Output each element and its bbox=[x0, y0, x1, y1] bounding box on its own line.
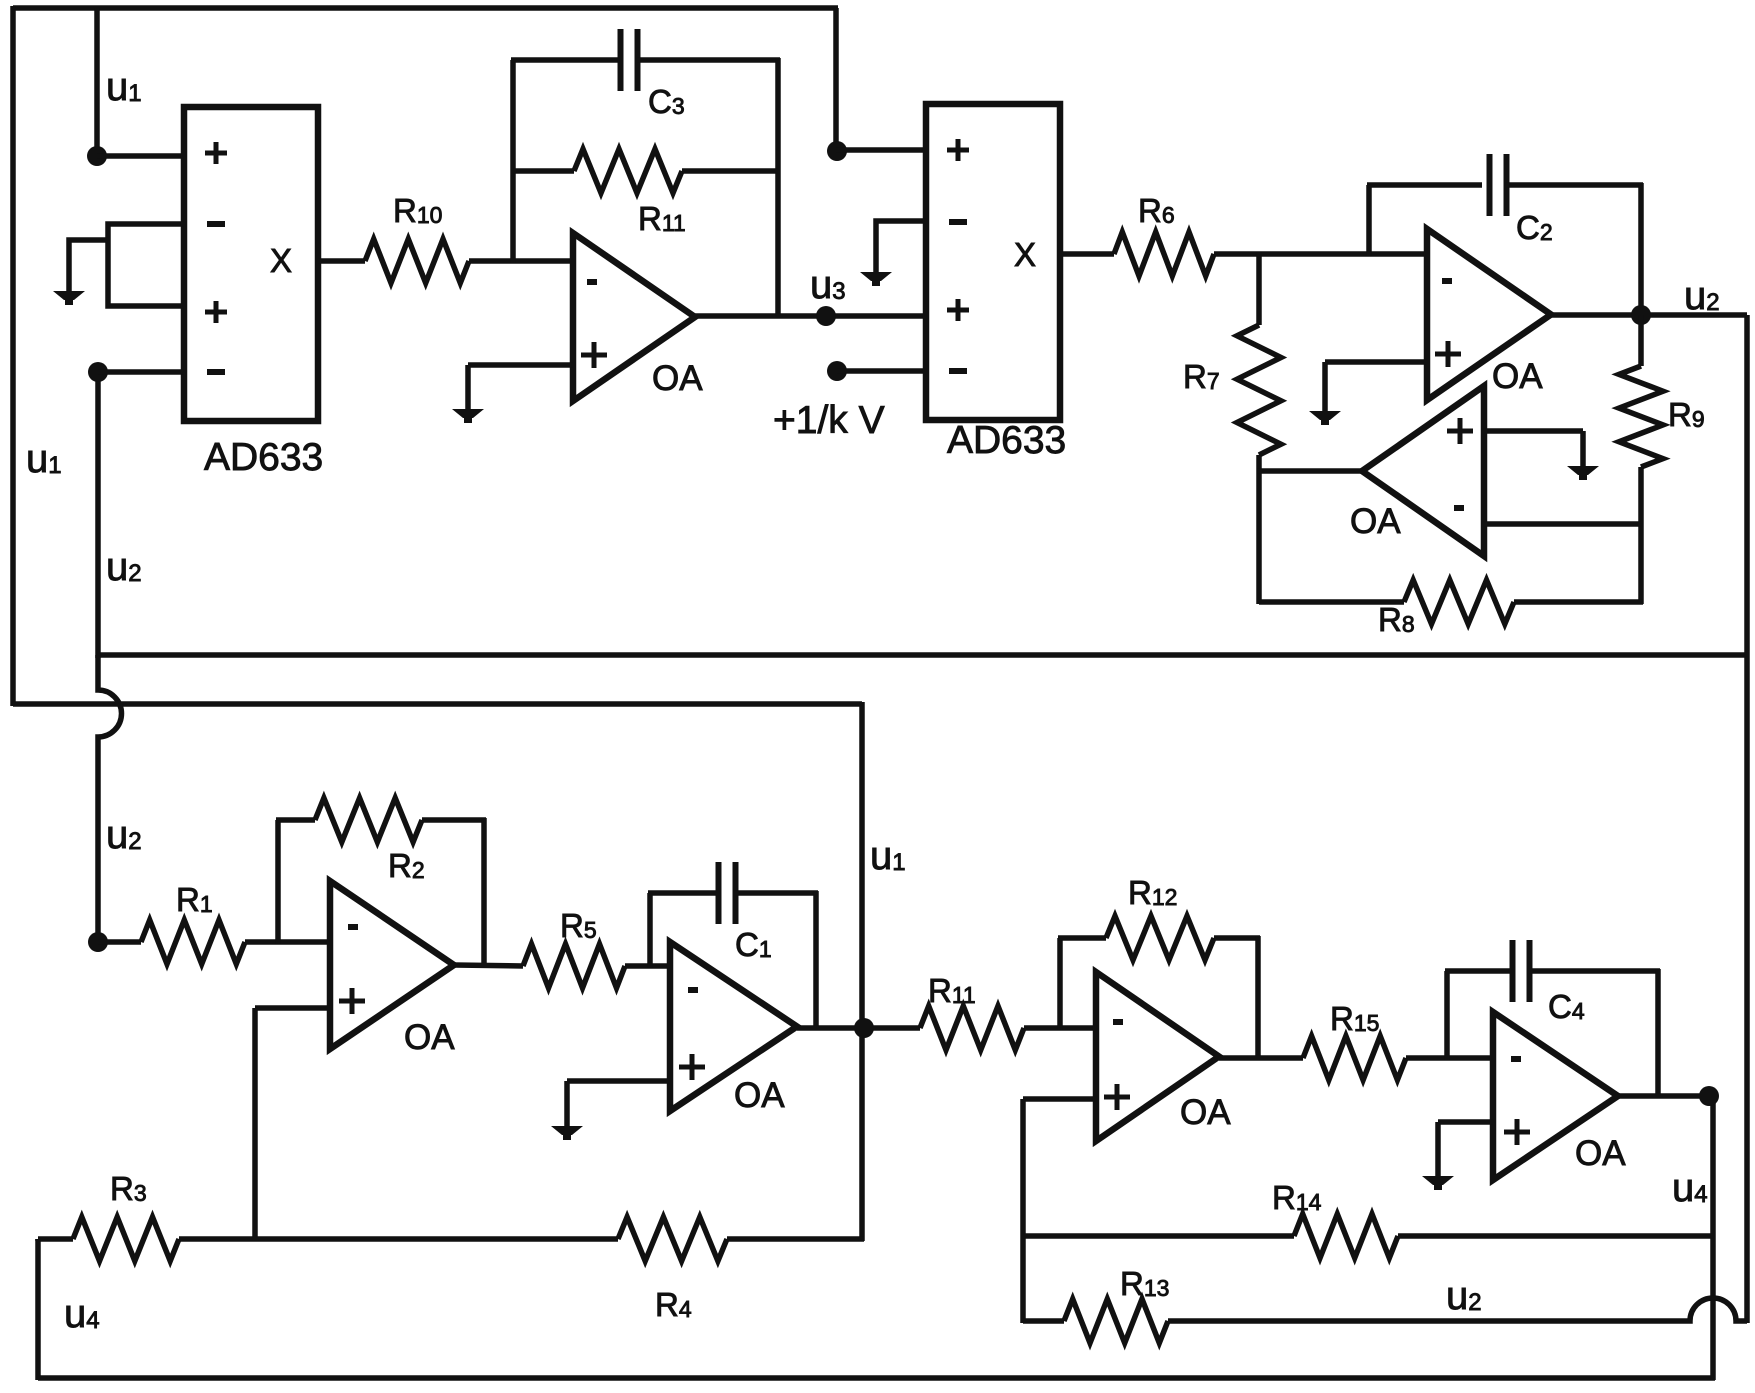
wire C2 top right bbox=[1506, 182, 1643, 188]
wire C3 top left bbox=[511, 57, 621, 63]
wire u2 vertical hop over u1 line bbox=[98, 655, 122, 944]
wire R2 right bbox=[422, 817, 486, 823]
wire C3 top right bbox=[637, 57, 780, 63]
wire OA5 output bbox=[797, 1025, 920, 1031]
wire AD633 #2 pin1 bbox=[836, 147, 926, 153]
label C1 bbox=[735, 926, 772, 963]
resistor R10 bbox=[365, 239, 469, 283]
wire OA5 ground stem bbox=[564, 1081, 570, 1127]
ground OA1 bbox=[452, 409, 484, 423]
wire OA5 plus input bbox=[567, 1078, 670, 1084]
wire C1 right leg bbox=[813, 891, 819, 1030]
wire OA7 output bbox=[1618, 1093, 1713, 1099]
OA5 plus bbox=[679, 1054, 705, 1080]
wire C1 top left bbox=[648, 890, 719, 896]
AD633 #1 pin3 + bbox=[205, 301, 227, 323]
op-amp OA4 bbox=[330, 881, 454, 1049]
wire R2 left leg bbox=[275, 820, 281, 944]
label OA1 bbox=[652, 359, 703, 398]
svg-text:X: X bbox=[270, 242, 292, 279]
label u3 bbox=[810, 263, 846, 307]
OA4 minus bbox=[348, 924, 358, 930]
multiplier AD633 #1 box bbox=[184, 107, 318, 421]
wire C2 right leg bbox=[1638, 183, 1644, 317]
resistor R9 bbox=[1619, 366, 1663, 467]
wire bottom border u4 bbox=[38, 1375, 1715, 1381]
wire R12 left bbox=[1058, 935, 1106, 941]
label OA5 bbox=[734, 1076, 785, 1115]
node u3 bbox=[816, 306, 836, 326]
wire R11 left bbox=[513, 168, 574, 174]
wire u2 vertical upper bbox=[95, 370, 101, 658]
svg-text:OA: OA bbox=[1350, 502, 1401, 541]
wire OA6 plus leg down bbox=[1020, 1099, 1026, 1323]
wire R11b to OA bbox=[1024, 1025, 1096, 1031]
svg-text:OA: OA bbox=[652, 359, 703, 398]
OA3 minus bbox=[1454, 505, 1464, 511]
label R9 bbox=[1668, 396, 1705, 433]
wire OA2 ground stem bbox=[1322, 362, 1328, 412]
svg-text:AD633: AD633 bbox=[947, 419, 1066, 462]
resistor R1 bbox=[141, 920, 245, 964]
wire R9 lower stem bbox=[1638, 467, 1644, 604]
resistor R2 bbox=[315, 798, 422, 842]
wire u1 vertical mid bbox=[859, 702, 865, 1241]
node u4 bbox=[1699, 1086, 1719, 1106]
node u2 to R1 bbox=[88, 932, 108, 952]
wire R13 right with hop bbox=[1168, 1298, 1747, 1321]
wire OA7 ground stem bbox=[1435, 1122, 1441, 1177]
wire R7 upper stem bbox=[1256, 252, 1262, 325]
wire R14 left bbox=[1023, 1233, 1294, 1239]
node u2 top right bbox=[1631, 305, 1651, 325]
label R6 bbox=[1138, 192, 1175, 229]
resistor R15 bbox=[1303, 1036, 1406, 1080]
op-amp OA1 bbox=[573, 233, 695, 401]
resistor R6 bbox=[1114, 232, 1214, 276]
label u2 left bbox=[106, 545, 142, 589]
AD633 #1 pin4 - bbox=[207, 369, 225, 375]
wire X2 output bbox=[1060, 251, 1114, 257]
op-amp OA3 mirrored bbox=[1362, 386, 1484, 556]
wire OA2 output bbox=[1551, 312, 1747, 318]
AD633 #2 pin1 + bbox=[947, 139, 969, 161]
wire R12 right bbox=[1214, 935, 1260, 941]
wire C4 right leg bbox=[1655, 969, 1661, 1098]
label OA7 bbox=[1575, 1134, 1626, 1173]
wire R10 to OA1 bbox=[469, 258, 573, 264]
resistor R7 bbox=[1237, 325, 1281, 455]
label C4 bbox=[1548, 988, 1585, 1025]
wire bottom left vertical u4 bbox=[35, 1239, 41, 1380]
label R1 bbox=[176, 881, 213, 918]
label R4 bbox=[655, 1286, 692, 1323]
wire R1 left bbox=[98, 939, 141, 945]
label u2 mid bbox=[106, 813, 142, 857]
wire R1 to OA bbox=[245, 939, 330, 945]
label u2 bottom bbox=[1446, 1274, 1482, 1318]
wire R14 right bbox=[1398, 1233, 1713, 1239]
wire R2 left bbox=[276, 817, 315, 823]
OA7 minus bbox=[1511, 1056, 1521, 1062]
OA5 minus bbox=[688, 987, 698, 993]
op-amp OA2 bbox=[1427, 229, 1551, 400]
AD633 #1 pin2 - bbox=[207, 221, 225, 227]
label u1 bottom bbox=[870, 834, 906, 878]
wire OA3 plus input bbox=[1484, 428, 1583, 434]
label u1 left border bbox=[26, 437, 62, 481]
wire OA1 plus input bbox=[468, 362, 573, 368]
svg-text:AD633: AD633 bbox=[204, 436, 323, 479]
wire OA4 output bbox=[454, 965, 523, 966]
label R2 bbox=[388, 847, 425, 884]
wire OA1 ground stem bbox=[465, 365, 471, 410]
ground #2 bbox=[860, 272, 892, 286]
wire R3 left vert bbox=[35, 1239, 41, 1241]
wire OA3 minus input bbox=[1484, 521, 1641, 527]
wire OA3 ground stem bbox=[1580, 431, 1586, 467]
node u1 junction bbox=[87, 146, 184, 166]
resistor R5 bbox=[523, 944, 625, 988]
wire right border u2 bbox=[1744, 315, 1750, 1323]
AD633 #2 pin3 + bbox=[947, 299, 969, 321]
op-amp OA6 bbox=[1096, 972, 1219, 1141]
wire R7 lower stem bbox=[1256, 455, 1262, 604]
label OA2 bbox=[1492, 357, 1543, 396]
wire ground stem #2 bbox=[876, 221, 926, 273]
node u1 junction right bbox=[827, 141, 847, 161]
resistor R3 bbox=[73, 1217, 179, 1261]
wire R2 right leg bbox=[481, 818, 487, 967]
capacitor C3 bbox=[621, 29, 638, 91]
OA3 plus bbox=[1447, 418, 1473, 444]
OA4 plus bbox=[339, 988, 365, 1014]
label R11 bbox=[638, 200, 686, 237]
wire C1 top right bbox=[735, 890, 818, 896]
resistor R8 bbox=[1404, 580, 1514, 624]
wire feedback left leg C3 bbox=[510, 60, 516, 263]
svg-text:OA: OA bbox=[734, 1076, 785, 1115]
svg-text:OA: OA bbox=[1575, 1134, 1626, 1173]
wire R3 left bbox=[38, 1236, 73, 1242]
op-amp OA5 bbox=[670, 942, 797, 1111]
label u2 top right bbox=[1684, 274, 1720, 318]
wire C4 left leg bbox=[1444, 971, 1450, 1060]
resistor R14 bbox=[1294, 1214, 1398, 1258]
wire R8 left bbox=[1259, 599, 1404, 605]
wire OA7 plus input bbox=[1438, 1119, 1493, 1125]
resistor R13 bbox=[1064, 1299, 1168, 1343]
wire C4 top left bbox=[1445, 968, 1513, 974]
OA1 plus bbox=[581, 342, 607, 368]
AD633 #2 X output label bbox=[1014, 236, 1036, 273]
wire u1 horizontal line bbox=[13, 701, 862, 707]
svg-text:OA: OA bbox=[1492, 357, 1543, 396]
svg-text:OA: OA bbox=[1180, 1093, 1231, 1132]
node +1/k V bbox=[827, 361, 926, 381]
wire R6 to OA bbox=[1214, 251, 1427, 257]
label R13 bbox=[1120, 1265, 1169, 1302]
wire R12 right leg bbox=[1255, 936, 1261, 1058]
label OA6 bbox=[1180, 1093, 1231, 1132]
wire OA6 output bbox=[1219, 1055, 1303, 1061]
node u1 junction bottom bbox=[854, 1018, 874, 1038]
wire C2 left leg bbox=[1366, 185, 1372, 256]
wire C2 top left bbox=[1367, 182, 1482, 188]
wire top border u1 bbox=[13, 5, 838, 11]
capacitor C2 bbox=[1490, 154, 1507, 216]
label R7 bbox=[1183, 358, 1220, 395]
wire OA6 plus input bbox=[1023, 1096, 1096, 1102]
label R14 bbox=[1272, 1179, 1322, 1216]
wire u1 drop to AD633 A bbox=[94, 8, 100, 158]
ground OA3 bbox=[1567, 466, 1599, 480]
svg-text:OA: OA bbox=[404, 1018, 455, 1057]
label R8 bbox=[1378, 601, 1415, 638]
wire left border u1 bbox=[10, 6, 16, 706]
wire R8 right bbox=[1514, 599, 1643, 605]
label R12 bbox=[1128, 874, 1177, 911]
label +1/k V bbox=[773, 399, 885, 442]
label R11 bottom bbox=[928, 972, 976, 1009]
label R3 bbox=[110, 1170, 147, 1207]
wire ground stem #1 bbox=[69, 240, 108, 292]
label C3 bbox=[648, 83, 685, 120]
wire OA2 plus input bbox=[1325, 359, 1427, 365]
ground OA5 bbox=[551, 1126, 583, 1140]
ground #1 bbox=[53, 291, 85, 305]
wire u2 horizontal line bbox=[96, 652, 1747, 658]
multiplier AD633 #2 box bbox=[926, 104, 1060, 420]
wire OA1 output bbox=[695, 313, 926, 319]
resistor R11 bbox=[574, 149, 682, 193]
wire R5 right bbox=[625, 963, 672, 969]
wire OA3 output bbox=[1257, 468, 1362, 474]
wire u4 vertical right bbox=[1710, 1094, 1716, 1380]
AD633 #1 pin1 + bbox=[205, 142, 227, 164]
label u4 right bbox=[1672, 1166, 1708, 1210]
wire R12 left leg bbox=[1057, 938, 1063, 1030]
wire R15 right bbox=[1406, 1055, 1495, 1061]
resistor R4 bbox=[618, 1217, 727, 1261]
wire OA4 plus leg down bbox=[252, 1008, 258, 1241]
wire R3-R4 row bbox=[179, 1236, 618, 1242]
wire R13 left bbox=[1023, 1318, 1064, 1324]
node u2 pin4 junction bbox=[88, 362, 184, 382]
AD633 #2 pin2 - bbox=[949, 219, 967, 225]
wire feedback right leg C3 bbox=[775, 58, 781, 318]
AD633 #2 pin4 - bbox=[949, 368, 967, 374]
OA2 plus bbox=[1435, 341, 1461, 367]
wire pins 2-3 loop bbox=[108, 224, 184, 306]
ground OA7 bbox=[1422, 1176, 1454, 1190]
label R10 bbox=[393, 192, 442, 229]
wire C4 top right bbox=[1529, 968, 1660, 974]
OA2 minus bbox=[1442, 278, 1452, 284]
OA6 minus bbox=[1113, 1019, 1123, 1025]
svg-text:X: X bbox=[1014, 236, 1036, 273]
AD633 #1 X output label bbox=[270, 242, 292, 279]
label OA4 bbox=[404, 1018, 455, 1057]
resistor R12 bbox=[1106, 916, 1214, 960]
label AD633 #1 bbox=[204, 436, 323, 479]
OA7 plus bbox=[1504, 1119, 1530, 1145]
ground OA2 bbox=[1309, 411, 1341, 425]
capacitor C1 bbox=[719, 862, 736, 924]
label C2 bbox=[1516, 209, 1553, 246]
wire R11 right bbox=[682, 168, 778, 174]
OA6 plus bbox=[1104, 1084, 1130, 1110]
resistor R11 bottom bbox=[920, 1006, 1024, 1050]
wire C1 left leg bbox=[647, 893, 653, 968]
label AD633 #2 bbox=[947, 419, 1066, 462]
wire X1 output bbox=[318, 258, 365, 264]
label OA3 bbox=[1350, 502, 1401, 541]
label R15 bbox=[1330, 1000, 1379, 1037]
wire u1 drop to AD633 B bbox=[833, 8, 839, 152]
wire OA4 plus input bbox=[255, 1005, 330, 1011]
label R5 bbox=[560, 907, 597, 944]
wire R9 upper stem bbox=[1638, 315, 1644, 366]
OA1 minus bbox=[587, 279, 597, 285]
wire R4 right bbox=[727, 1236, 864, 1242]
label u4 bottom left bbox=[64, 1292, 100, 1336]
op-amp OA7 bbox=[1493, 1012, 1618, 1180]
label u1 top bbox=[106, 65, 142, 109]
capacitor C4 bbox=[1513, 940, 1530, 1002]
svg-text:+1/k V: +1/k V bbox=[773, 399, 885, 442]
